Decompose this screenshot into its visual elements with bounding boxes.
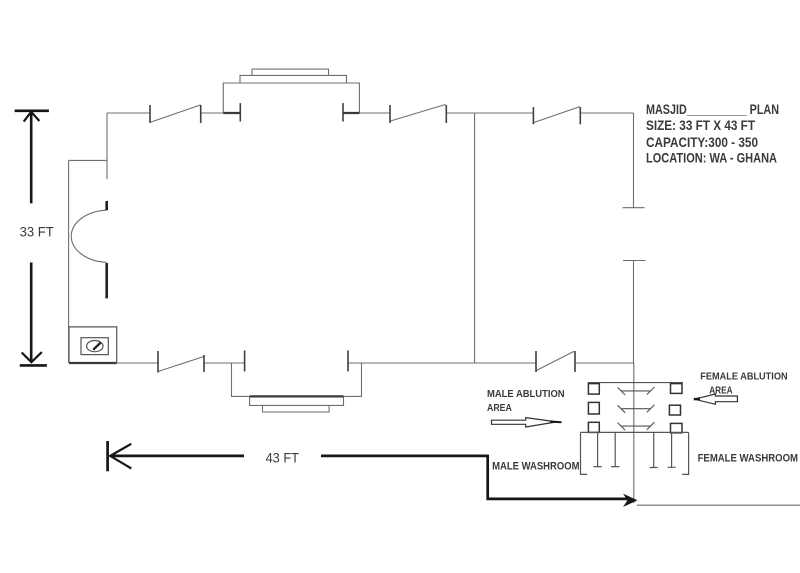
svg-text:43 FT: 43 FT [266, 450, 299, 465]
svg-text:SIZE: 33 FT X 43 FT: SIZE: 33 FT X 43 FT [646, 118, 756, 133]
svg-text:AREA: AREA [709, 386, 732, 397]
svg-text:33 FT: 33 FT [20, 224, 54, 239]
svg-text:FEMALE ABLUTION: FEMALE ABLUTION [700, 372, 787, 383]
svg-text:CAPACITY:300 - 350: CAPACITY:300 - 350 [646, 135, 758, 150]
svg-text:FEMALE WASHROOM: FEMALE WASHROOM [698, 453, 798, 465]
svg-text:LOCATION: WA - GHANA: LOCATION: WA - GHANA [646, 150, 777, 165]
svg-text:AREA: AREA [487, 403, 512, 414]
svg-text:MALE ABLUTION: MALE ABLUTION [487, 389, 565, 400]
svg-text:MALE WASHROOM: MALE WASHROOM [492, 461, 579, 473]
svg-text:MASJID__________ PLAN: MASJID__________ PLAN [646, 102, 779, 117]
